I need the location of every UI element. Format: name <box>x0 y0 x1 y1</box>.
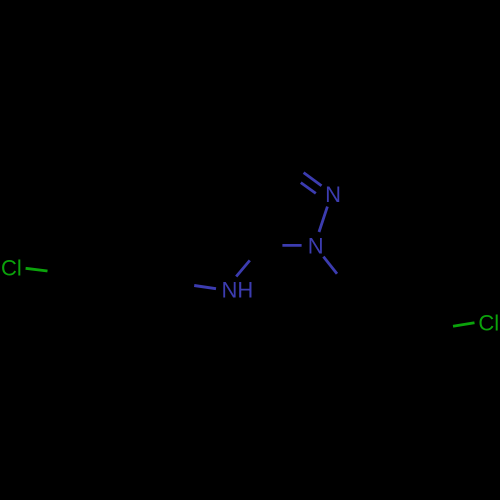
bond C5-N1 (nitrogen half) <box>282 244 301 247</box>
bond N1-N2 (pyrazole) <box>319 207 327 232</box>
svg-text:N: N <box>325 182 341 207</box>
bond C3=N2 inner line (nitrogen half) <box>301 183 316 194</box>
svg-text:N: N <box>308 234 324 259</box>
bond Cl-phenyl (left, chlorine half) <box>26 268 48 271</box>
bond Cl-phenyl (right, chlorine half) <box>453 323 475 327</box>
bond NH-phenyl (left ring, nitrogen half) <box>194 286 216 289</box>
bond C3=N2 outer line (nitrogen half) <box>304 173 322 186</box>
svg-text:Cl: Cl <box>1 256 22 281</box>
svg-text:NH: NH <box>222 277 254 302</box>
svg-text:Cl: Cl <box>478 311 499 336</box>
bond C5-NH (nitrogen half) <box>236 260 250 276</box>
bond N1-phenyl (right ring, nitrogen half) <box>323 257 337 274</box>
